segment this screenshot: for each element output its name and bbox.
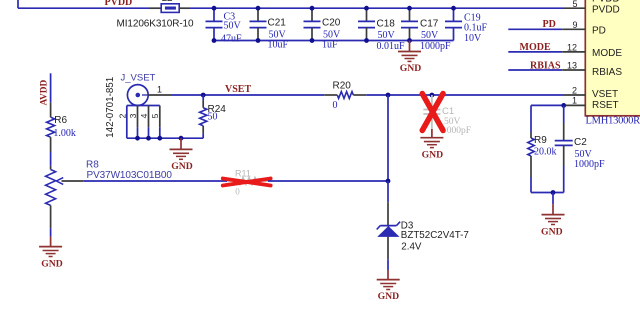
zener diode D3 xyxy=(377,221,469,253)
svg-text:GND: GND xyxy=(541,226,563,237)
wire MODE xyxy=(508,51,562,53)
pin 1 number of J_VSET xyxy=(157,85,162,95)
ground GND under R9-C2 xyxy=(541,193,564,238)
pin 3 number of J_VSET xyxy=(128,113,138,118)
ground GND under R8 xyxy=(39,237,63,270)
ground GND under J_VSET xyxy=(170,138,193,172)
wire VSET down to divider xyxy=(387,95,389,181)
svg-text:BZT52C2V4T-7: BZT52C2V4T-7 xyxy=(401,230,469,241)
svg-text:VSET: VSET xyxy=(225,84,251,95)
designator L2 (clipped at top) xyxy=(162,0,174,4)
wire R20 to chip xyxy=(366,94,563,96)
svg-text:GND: GND xyxy=(400,63,422,74)
svg-text:J_VSET: J_VSET xyxy=(121,72,156,83)
capacitor C21 xyxy=(250,8,289,50)
pin 9 number xyxy=(572,20,577,30)
svg-text:AVDD: AVDD xyxy=(40,79,50,105)
svg-text:1: 1 xyxy=(572,96,577,106)
svg-text:RBIAS: RBIAS xyxy=(592,67,622,78)
svg-text:50V: 50V xyxy=(224,21,242,32)
svg-text:1000pF: 1000pF xyxy=(420,41,451,52)
junction dots PVDD rail xyxy=(212,6,456,11)
svg-text:1: 1 xyxy=(157,85,162,95)
svg-text:LMH13000RNDR: LMH13000RNDR xyxy=(586,116,640,127)
pin 2 number xyxy=(572,86,577,96)
svg-text:1000pF: 1000pF xyxy=(442,126,471,136)
svg-text:R6: R6 xyxy=(54,115,67,126)
pin 2 stub xyxy=(563,94,585,96)
svg-text:13: 13 xyxy=(567,61,577,71)
pin 5 stub xyxy=(563,7,585,9)
svg-text:PVDD: PVDD xyxy=(592,4,620,15)
svg-text:C21: C21 xyxy=(268,18,287,29)
svg-text:12: 12 xyxy=(567,42,577,52)
net label RBIAS xyxy=(530,61,561,72)
svg-text:50: 50 xyxy=(208,111,218,122)
pin 12 MODE name xyxy=(592,48,622,59)
value LMH13000RNDR xyxy=(586,116,640,127)
power port AVDD xyxy=(40,79,50,105)
junction divider node xyxy=(386,179,391,184)
svg-text:50V: 50V xyxy=(421,30,439,41)
wire PVDD rail to L2 xyxy=(18,7,150,9)
svg-text:GND: GND xyxy=(422,149,444,160)
svg-text:PD: PD xyxy=(592,25,606,36)
capacitor C19 xyxy=(445,8,488,44)
value 142-0701-851 xyxy=(105,77,116,138)
wire R8 bottom xyxy=(50,228,52,236)
wire junction to D3 xyxy=(387,181,389,225)
pin 4 PVDD (clipped) xyxy=(592,0,620,5)
junction dots ground rail xyxy=(212,38,412,43)
svg-text:50V: 50V xyxy=(378,30,396,41)
svg-text:10V: 10V xyxy=(464,33,482,44)
wire AVDD xyxy=(50,73,52,102)
svg-text:47uF: 47uF xyxy=(221,34,242,45)
pin 13 stub xyxy=(562,69,585,71)
wire connector shield bus xyxy=(127,137,203,139)
svg-text:C1: C1 xyxy=(442,106,454,117)
pin 5 number of J_VSET xyxy=(150,113,160,118)
svg-text:VSET: VSET xyxy=(592,89,618,100)
svg-text:PVDD: PVDD xyxy=(105,0,133,8)
wire PVDD entry vertical xyxy=(17,0,19,8)
op-amp U1 LMH13000 body xyxy=(585,0,640,116)
svg-text:142-0701-851: 142-0701-851 xyxy=(105,77,116,138)
pin 4 number of J_VSET xyxy=(139,113,149,118)
net label PD xyxy=(543,19,556,30)
junction R9-C2 ground xyxy=(551,190,556,195)
wire PVDD rail caps xyxy=(190,7,564,9)
svg-text:0: 0 xyxy=(235,187,240,197)
wire D3 bottom xyxy=(387,237,389,270)
svg-text:5: 5 xyxy=(150,113,160,118)
svg-text:0: 0 xyxy=(333,100,338,111)
wire RSET to R9 xyxy=(531,104,564,106)
svg-text:GND: GND xyxy=(378,291,400,302)
svg-text:R11: R11 xyxy=(235,168,251,178)
inductor L2 pin stub left xyxy=(150,7,162,9)
capacitor C20 xyxy=(304,8,342,50)
pin 13 number xyxy=(567,61,577,71)
svg-text:4: 4 xyxy=(139,113,149,118)
connector J_VSET shield box xyxy=(127,106,160,139)
capacitor C17 xyxy=(401,8,451,52)
power port PVDD xyxy=(105,0,133,8)
svg-text:9: 9 xyxy=(572,20,577,30)
pin 2 VSET name xyxy=(592,89,618,100)
connector J_VSET designator xyxy=(121,72,156,83)
wire R11 to junction xyxy=(268,180,388,182)
svg-text:MI1206K310R-10: MI1206K310R-10 xyxy=(117,19,195,30)
svg-text:2.4V: 2.4V xyxy=(401,242,422,253)
pin 2 number of J_VSET xyxy=(117,113,127,118)
svg-text:GND: GND xyxy=(171,161,193,172)
potentiometer R8 xyxy=(46,160,173,229)
ground GND under D3 xyxy=(377,270,400,302)
svg-text:1.00k: 1.00k xyxy=(53,128,76,139)
inductor L2 (ferrite bead) xyxy=(161,4,179,13)
capacitor C1 (not fitted) xyxy=(423,95,471,136)
pin 1 number xyxy=(572,96,577,106)
resistor R24 xyxy=(200,95,227,138)
junction RSET xyxy=(561,103,566,108)
wire R9-C2 bottom xyxy=(531,192,564,194)
svg-text:R9: R9 xyxy=(534,135,547,146)
pin 9 PD name xyxy=(592,25,606,36)
red X over R11 xyxy=(223,179,271,186)
pin 13 RBIAS name xyxy=(592,67,622,78)
svg-text:1000pF: 1000pF xyxy=(574,159,605,170)
connector J_VSET coax circle xyxy=(127,85,148,106)
capacitor C2 xyxy=(555,105,605,192)
svg-text:PD: PD xyxy=(543,19,556,30)
svg-text:RSET: RSET xyxy=(592,100,619,111)
svg-text:20.0k: 20.0k xyxy=(534,146,557,157)
svg-text:2: 2 xyxy=(117,113,127,118)
ground GND under C1 xyxy=(420,129,443,160)
svg-text:R20: R20 xyxy=(333,81,352,92)
junction VSET at divider xyxy=(386,93,391,98)
red X over C1 xyxy=(422,94,443,131)
pin 1 stub of J_VSET xyxy=(148,94,171,96)
wiper arrow of R8 xyxy=(56,178,83,185)
pin 9 stub xyxy=(562,28,585,30)
inductor L2 pin stub right xyxy=(179,7,189,9)
svg-text:PV37W103C01B00: PV37W103C01B00 xyxy=(87,170,173,181)
resistor R9 xyxy=(528,105,557,192)
ground GND under C17 xyxy=(398,41,421,75)
svg-text:GND: GND xyxy=(41,259,63,270)
svg-text:C17: C17 xyxy=(420,19,439,30)
svg-text:3: 3 xyxy=(128,113,138,118)
pin 12 number xyxy=(567,42,577,52)
svg-text:0.1uF: 0.1uF xyxy=(464,23,488,34)
pin 1 RSET name xyxy=(592,100,619,111)
svg-text:C20: C20 xyxy=(322,18,341,29)
svg-text:C18: C18 xyxy=(377,19,396,30)
junction VSET at C1 xyxy=(430,93,435,98)
wire J_VSET pin1 to R20 xyxy=(172,94,325,96)
svg-text:C2: C2 xyxy=(574,137,587,148)
svg-text:MODE: MODE xyxy=(520,42,551,53)
wire PD xyxy=(508,28,562,30)
resistor R20 xyxy=(324,81,366,112)
resistor R11 (not fitted) xyxy=(227,168,268,196)
pin 5 PVDD name xyxy=(592,4,620,15)
value MI1206K310R-10 xyxy=(117,19,195,30)
svg-text:L2: L2 xyxy=(162,0,174,4)
junction VSET at R24 xyxy=(201,93,206,98)
pin 12 stub xyxy=(562,51,585,53)
wire decoupling ground rail xyxy=(214,40,454,42)
svg-text:RBIAS: RBIAS xyxy=(530,61,561,72)
resistor R6 xyxy=(47,103,76,152)
svg-text:0.01uF: 0.01uF xyxy=(377,41,406,52)
net label VSET xyxy=(225,84,251,95)
pin 5 number xyxy=(572,0,577,9)
capacitor C3 xyxy=(206,8,243,44)
junctions shield bus xyxy=(135,136,183,141)
wire wiper to R11 xyxy=(84,180,227,182)
wire R6 to R8 xyxy=(50,152,52,166)
capacitor C18 xyxy=(358,8,405,52)
wire RBIAS xyxy=(508,69,562,71)
pin 1 stub xyxy=(564,104,586,106)
svg-text:MODE: MODE xyxy=(592,48,622,59)
net label MODE xyxy=(520,42,551,53)
